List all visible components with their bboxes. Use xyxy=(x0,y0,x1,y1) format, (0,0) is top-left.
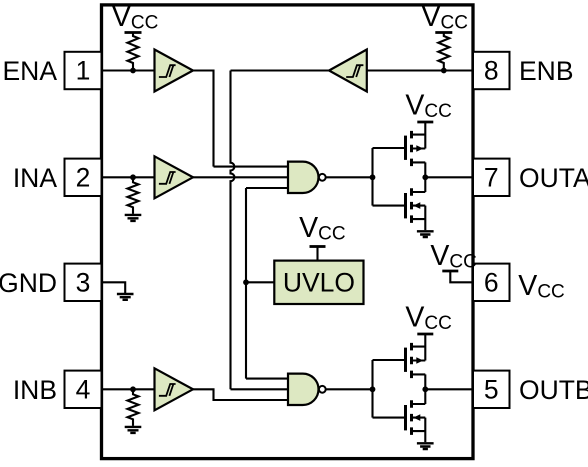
svg-text:INB: INB xyxy=(13,375,57,405)
node gate split B xyxy=(370,386,376,392)
node UVLO junction xyxy=(243,279,249,285)
VCC bar UVLO xyxy=(310,245,326,248)
transistor QB1 body arrow xyxy=(416,357,423,364)
svg-text:2: 2 xyxy=(76,162,91,192)
ground stage A xyxy=(417,231,434,237)
svg-text:GND: GND xyxy=(0,268,57,298)
ground GND pin xyxy=(117,294,134,300)
VCC bar pin6 xyxy=(442,270,458,273)
wire UVLO VCC stub xyxy=(316,247,318,261)
hysteresis symbol ENA xyxy=(159,65,176,77)
svg-text:OUTB: OUTB xyxy=(519,375,588,405)
node ENA junction xyxy=(130,68,136,74)
transistor QA2 body arrow xyxy=(413,202,420,209)
wire NAND A input 1 (ENA) xyxy=(214,166,289,168)
wire NAND A input 2 (INA) xyxy=(193,176,288,178)
IC outline box xyxy=(102,5,474,459)
VCC bar ENB pullup xyxy=(435,31,452,34)
output stage A xyxy=(370,89,473,237)
VCC bar stage B xyxy=(417,333,433,336)
NAND gate B xyxy=(288,374,318,405)
wire pin4 to buffer xyxy=(102,388,155,390)
pin 8 box xyxy=(473,52,510,89)
resistor R-INA pulldown xyxy=(128,177,139,214)
output stage B xyxy=(370,301,473,449)
wire ENA buffer output xyxy=(193,71,214,167)
node INB junction xyxy=(130,386,136,392)
pin 7 box xyxy=(473,159,510,196)
transistor QB2 NMOS stubs xyxy=(412,404,426,431)
buffer ENA schmitt xyxy=(155,50,194,92)
svg-text:UVLO: UVLO xyxy=(283,268,355,298)
transistor QA1 gate bar xyxy=(404,136,407,160)
hysteresis symbol INB xyxy=(159,384,176,396)
wire OUTB to pin5 xyxy=(425,388,473,390)
transistor QA2 NMOS stubs xyxy=(412,192,426,219)
transistor QA2 NMOS channel xyxy=(410,188,413,223)
NAND B inversion bubble xyxy=(319,386,326,393)
wire gate QB1 xyxy=(373,359,406,361)
buffer INA schmitt xyxy=(155,156,194,198)
wire pin2 to buffer xyxy=(102,176,155,178)
pin 3 box xyxy=(65,264,102,301)
buffer ENB schmitt (left pointing) xyxy=(329,50,367,92)
transistor QB1 PMOS channel xyxy=(410,343,413,378)
wire pin1 to buffer xyxy=(102,69,155,71)
wire NAND B output xyxy=(326,388,373,390)
svg-text:7: 7 xyxy=(484,162,499,192)
NAND A inversion bubble xyxy=(319,174,326,181)
wire NAND A output xyxy=(326,176,373,178)
wire NAND A input 3 (UVLO) xyxy=(246,187,288,189)
wire gate QA1 xyxy=(373,147,406,149)
wire QB2 body to source xyxy=(424,418,426,443)
resistor R-ENB pullup xyxy=(438,33,449,71)
pin 2 box xyxy=(65,159,102,196)
svg-text:5: 5 xyxy=(484,374,499,404)
wire pin8 to ENB buffer xyxy=(367,69,473,71)
node OUTA xyxy=(422,174,428,180)
svg-text:3: 3 xyxy=(76,267,91,297)
node OUTB xyxy=(422,386,428,392)
NAND gate A xyxy=(288,162,318,193)
svg-text:1: 1 xyxy=(76,56,91,86)
svg-text:ENA: ENA xyxy=(3,56,58,86)
block UVLO xyxy=(274,261,363,304)
pin 4 box xyxy=(65,371,102,408)
svg-text:8: 8 xyxy=(484,56,499,86)
wire VCC to PMOS QB1 xyxy=(424,334,426,361)
wire GND pin to ground xyxy=(102,282,126,294)
ground stage B xyxy=(417,443,434,449)
pin 1 box xyxy=(65,52,102,89)
VCC bar ENA pullup xyxy=(125,31,142,34)
wire QB1 drain to output xyxy=(424,374,426,404)
hysteresis symbol ENB xyxy=(346,65,363,77)
buffer INB schmitt xyxy=(155,368,194,410)
resistor R-INB pulldown xyxy=(128,389,139,426)
svg-text:INA: INA xyxy=(13,163,58,193)
wire QA2 body to source xyxy=(424,206,426,231)
ground INB pulldown xyxy=(125,427,142,433)
wire NAND B input 2 (ENB) xyxy=(231,388,289,390)
resistor R-ENA pullup xyxy=(128,33,139,71)
wire NAND B input 3 (INB) jog xyxy=(193,389,288,400)
hysteresis symbol INA xyxy=(159,172,176,184)
svg-text:ENB: ENB xyxy=(519,56,574,86)
svg-text:OUTA: OUTA xyxy=(519,163,588,193)
wire NAND A out to gates xyxy=(371,148,373,206)
wire UVLO bus vertical xyxy=(245,188,247,379)
transistor QA1 PMOS stubs xyxy=(412,135,426,163)
wire VCC to PMOS QA1 xyxy=(424,122,426,149)
wire NAND B input 1 (UVLO) xyxy=(246,378,288,380)
wire gate QA2 xyxy=(373,205,406,207)
transistor QB2 body arrow xyxy=(413,414,420,421)
transistor QA2 gate bar xyxy=(404,193,407,218)
transistor QA1 PMOS channel xyxy=(410,131,413,166)
pin 6 box xyxy=(473,264,510,301)
transistor QB2 gate bar xyxy=(404,405,407,430)
ground INA pulldown xyxy=(125,215,142,221)
svg-text:4: 4 xyxy=(76,374,91,404)
transistor QB1 PMOS stubs xyxy=(412,347,426,375)
wire UVLO output xyxy=(246,281,274,283)
node ENB junction xyxy=(441,68,447,74)
wire gate QB2 xyxy=(373,417,406,419)
wire QA1 drain to output xyxy=(424,162,426,192)
node gate split A xyxy=(370,174,376,180)
pin 5 box xyxy=(473,371,510,408)
transistor QB1 gate bar xyxy=(404,348,407,372)
node INA junction xyxy=(130,174,136,180)
wire pin6 VCC stub xyxy=(450,271,473,282)
wire OUTA to pin7 xyxy=(425,176,473,178)
transistor QB2 NMOS channel xyxy=(410,400,413,435)
VCC bar stage A xyxy=(417,121,433,124)
svg-text:6: 6 xyxy=(484,267,499,297)
wire NAND B out to gates xyxy=(371,360,373,418)
wire ENB buffer output with hops xyxy=(231,71,330,390)
transistor QA1 body arrow xyxy=(416,145,423,152)
